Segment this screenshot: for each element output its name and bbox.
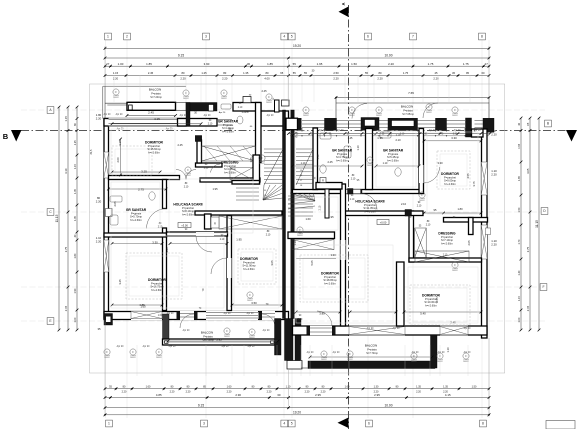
stamp top balcony bbox=[266, 94, 272, 102]
svg-text:2.10: 2.10 bbox=[266, 234, 271, 236]
svg-text:Apr 20: Apr 20 bbox=[183, 329, 190, 332]
balcony bottom-right side wall bbox=[431, 335, 438, 368]
grid bubble 5 bottom bbox=[288, 420, 295, 427]
svg-text:1.95: 1.95 bbox=[317, 62, 323, 66]
wall above dormitor3 bbox=[195, 211, 282, 215]
grid bubble 6 bottom bbox=[366, 420, 373, 427]
dim row 2.75 gr sanitar bbox=[107, 188, 167, 191]
balcony bottom-left parapet bbox=[163, 339, 276, 345]
svg-text:3.75: 3.75 bbox=[526, 246, 530, 252]
svg-text:2.10: 2.10 bbox=[426, 224, 431, 226]
svg-text:Apr 20: Apr 20 bbox=[117, 345, 124, 348]
window bottom right 1 bbox=[349, 327, 405, 335]
grid bubble 4 bottom bbox=[281, 420, 288, 427]
svg-text:3.30: 3.30 bbox=[152, 241, 158, 245]
window right wall lower bbox=[481, 225, 487, 259]
door dormitor 2 bbox=[211, 258, 227, 274]
svg-text:11.15: 11.15 bbox=[535, 220, 539, 228]
svg-text:Apr 20: Apr 20 bbox=[167, 312, 174, 315]
stamp bottom right unit bbox=[347, 351, 353, 359]
svg-text:8: 8 bbox=[481, 35, 483, 39]
svg-text:Apr 20: Apr 20 bbox=[224, 312, 231, 315]
svg-text:4: 4 bbox=[283, 35, 285, 39]
svg-text:5: 5 bbox=[291, 422, 293, 426]
svg-text:9.15: 9.15 bbox=[178, 54, 184, 58]
section arrow A top bbox=[339, 7, 349, 18]
svg-text:1.35: 1.35 bbox=[243, 71, 249, 75]
stamp top balcony bbox=[113, 89, 119, 97]
room label dormitor 3 left bbox=[240, 257, 259, 271]
svg-text:4.10: 4.10 bbox=[64, 168, 68, 174]
svg-text:h=+2.60m: h=+2.60m bbox=[151, 288, 163, 292]
svg-text:2.20: 2.20 bbox=[491, 132, 497, 136]
svg-text:HOL/CASA SCARII: HOL/CASA SCARII bbox=[355, 200, 384, 204]
svg-text:1.75: 1.75 bbox=[428, 62, 434, 66]
svg-text:2.20: 2.20 bbox=[305, 391, 310, 394]
dressing right left wall bbox=[409, 211, 414, 262]
svg-text:1.10: 1.10 bbox=[356, 145, 360, 151]
svg-text:1.20%: 1.20% bbox=[241, 111, 249, 114]
right wall window opening 2 bbox=[481, 225, 487, 259]
svg-text:2.10: 2.10 bbox=[184, 186, 189, 188]
stair walk diagonal right upper bbox=[296, 149, 313, 185]
svg-text:95: 95 bbox=[466, 71, 469, 75]
svg-text:1.15: 1.15 bbox=[518, 295, 521, 300]
svg-text:2.20: 2.20 bbox=[491, 242, 497, 246]
svg-text:4.15: 4.15 bbox=[445, 393, 451, 397]
svg-text:30: 30 bbox=[277, 393, 281, 397]
svg-text:5.40: 5.40 bbox=[420, 312, 426, 316]
dimension riser lines bbox=[105, 46, 489, 414]
svg-text:Apr 20: Apr 20 bbox=[267, 114, 274, 117]
svg-text:3.80: 3.80 bbox=[319, 312, 325, 316]
svg-text:3.35: 3.35 bbox=[118, 140, 122, 146]
svg-text:8: 8 bbox=[482, 422, 484, 426]
stamp bottom right unit bbox=[321, 351, 327, 359]
window left wall upper bbox=[104, 152, 109, 178]
svg-text:9.15: 9.15 bbox=[198, 403, 204, 407]
stair numbers bbox=[300, 170, 303, 187]
stamp bottom left wall bbox=[156, 349, 162, 357]
svg-text:2.10: 2.10 bbox=[220, 239, 225, 241]
svg-text:GR SANITAR: GR SANITAR bbox=[383, 149, 404, 153]
stamp interior bbox=[452, 262, 458, 270]
grid bubble C left bbox=[47, 209, 54, 216]
wall below dressing left bbox=[200, 178, 260, 182]
svg-text:2.10: 2.10 bbox=[396, 135, 401, 137]
party junction wall right unit bbox=[286, 118, 298, 130]
svg-text:80: 80 bbox=[182, 71, 185, 75]
svg-text:1.95: 1.95 bbox=[328, 215, 334, 219]
svg-text:HOL/CASA SCARII: HOL/CASA SCARII bbox=[173, 203, 202, 207]
room label dormitor 1 left bbox=[145, 141, 164, 155]
door gr sanitar 2 bbox=[147, 209, 167, 229]
svg-text:P=piatra: P=piatra bbox=[203, 335, 213, 338]
balcony inner dim row bbox=[126, 114, 177, 117]
svg-text:27: 27 bbox=[485, 62, 489, 66]
stamp bottom right unit bbox=[463, 353, 469, 361]
wall below dormitor top-right bbox=[444, 218, 488, 223]
wall below dormitor 1 bbox=[109, 176, 180, 180]
wall dormitor1 / dressing bbox=[196, 163, 223, 167]
svg-text:F: F bbox=[542, 285, 544, 289]
svg-text:2.20: 2.20 bbox=[377, 76, 383, 80]
svg-text:4.35: 4.35 bbox=[154, 117, 160, 121]
svg-text:2.45: 2.45 bbox=[148, 111, 154, 115]
svg-text:2.10: 2.10 bbox=[298, 319, 303, 321]
top wall left segment bbox=[104, 119, 186, 127]
room label gr sanitar 1 right bbox=[332, 149, 353, 163]
svg-text:45: 45 bbox=[452, 71, 455, 75]
svg-text:DORMITOR: DORMITOR bbox=[441, 172, 460, 176]
grid bubble 4 bbox=[281, 33, 288, 40]
wall dormitor2 / dormitor3 bbox=[227, 216, 232, 311]
svg-text:6: 6 bbox=[367, 35, 369, 39]
bottom 9.15 / 10.00 chain bbox=[104, 403, 491, 409]
svg-text:1.60: 1.60 bbox=[345, 385, 350, 388]
svg-text:2.20: 2.20 bbox=[96, 239, 102, 243]
svg-text:DORMITOR: DORMITOR bbox=[148, 278, 167, 282]
wall right of gr sanitar upper bbox=[256, 103, 262, 163]
svg-text:1.60: 1.60 bbox=[305, 217, 311, 221]
svg-text:2.15: 2.15 bbox=[64, 305, 68, 311]
svg-text:5.95: 5.95 bbox=[216, 338, 222, 342]
svg-text:Apr 20: Apr 20 bbox=[104, 113, 111, 116]
hall wall right unit bbox=[345, 211, 423, 216]
grid bubble F right bbox=[540, 284, 547, 291]
bottom wall window opening 1 bbox=[131, 311, 162, 320]
svg-text:S=7.20mp: S=7.20mp bbox=[150, 96, 162, 99]
stamp interior bbox=[297, 227, 303, 235]
svg-text:+0.00: +0.00 bbox=[380, 220, 387, 224]
stamp balcony bottom-left bbox=[224, 328, 230, 336]
svg-text:80: 80 bbox=[266, 71, 269, 75]
svg-text:1.80: 1.80 bbox=[457, 207, 463, 211]
svg-text:19.20: 19.20 bbox=[293, 44, 301, 48]
svg-text:30: 30 bbox=[247, 62, 251, 66]
room label hol left bbox=[173, 203, 202, 217]
svg-text:3.50: 3.50 bbox=[251, 301, 257, 305]
svg-text:P=piatra: P=piatra bbox=[151, 92, 161, 95]
svg-text:2.20: 2.20 bbox=[122, 391, 127, 394]
right top wall pier 5 bbox=[436, 118, 447, 130]
svg-text:55: 55 bbox=[293, 71, 296, 75]
svg-text:2.20: 2.20 bbox=[96, 199, 102, 203]
closet dressing right bottom bbox=[415, 251, 469, 262]
wall below bathrooms right unit bbox=[293, 190, 424, 194]
stamp interior bbox=[221, 90, 227, 98]
svg-text:1.30: 1.30 bbox=[374, 385, 379, 388]
party wall extension leaf 2 bbox=[295, 319, 301, 369]
staircase right unit upper flight bbox=[296, 149, 313, 183]
room label gr sanitar lower left bbox=[126, 208, 147, 222]
room label dormitor top right bbox=[441, 172, 460, 186]
svg-text:3.30: 3.30 bbox=[293, 240, 297, 246]
svg-text:2.45: 2.45 bbox=[261, 89, 267, 93]
svg-text:h=+2.60m: h=+2.60m bbox=[182, 212, 194, 216]
grid bubble 2 bbox=[124, 33, 131, 40]
bottom wall door opening 2 bbox=[262, 311, 275, 320]
svg-text:S=7.65mp: S=7.65mp bbox=[402, 113, 414, 116]
party wall left leaf bbox=[283, 110, 286, 319]
svg-text:1.35: 1.35 bbox=[443, 385, 448, 388]
window jamb lines right unit bbox=[302, 128, 475, 132]
svg-text:2.20: 2.20 bbox=[96, 116, 102, 120]
section axis B (horizontal dash-dot) bbox=[21, 130, 567, 132]
wall between gr sanitar 1-2 right bbox=[366, 129, 373, 190]
svg-text:h=+2.60m: h=+2.60m bbox=[148, 150, 160, 154]
svg-text:h=+2.60m: h=+2.60m bbox=[387, 158, 399, 162]
bathroom fixtures bbox=[110, 104, 401, 225]
balcony door swing right 1 bbox=[352, 104, 367, 119]
svg-text:1.35: 1.35 bbox=[74, 215, 77, 220]
hol wall upper segment bbox=[163, 180, 167, 209]
party wall extension leaf 1 bbox=[285, 319, 294, 361]
svg-text:h=+2.60m: h=+2.60m bbox=[441, 241, 453, 245]
svg-text:2.45: 2.45 bbox=[327, 160, 333, 164]
svg-text:Apr 20: Apr 20 bbox=[319, 129, 326, 132]
stair walk diagonal left upper bbox=[264, 149, 283, 185]
furniture beds (light) bbox=[112, 146, 152, 176]
level marker box right bbox=[377, 220, 389, 225]
party wall right leaf bbox=[291, 110, 294, 319]
grid bubble 3 bbox=[203, 33, 210, 40]
svg-text:GR SANITAR: GR SANITAR bbox=[218, 120, 239, 124]
svg-text:80: 80 bbox=[379, 71, 382, 75]
overall dimension 19.20 bottom bbox=[104, 411, 491, 417]
svg-text:1.60: 1.60 bbox=[158, 315, 163, 317]
svg-text:2.20: 2.20 bbox=[416, 391, 421, 394]
staircase left winder fan bbox=[263, 185, 283, 200]
wall left of dressing-left upper bbox=[197, 140, 202, 163]
svg-text:2.10: 2.10 bbox=[401, 202, 407, 206]
door dressing left bbox=[211, 164, 221, 173]
right top wall pier 1 bbox=[298, 118, 302, 130]
overall dimension 19.20 top bbox=[104, 44, 491, 50]
svg-text:Apr 20: Apr 20 bbox=[337, 129, 344, 132]
door gap bbox=[419, 165, 424, 183]
svg-text:Apr 20: Apr 20 bbox=[116, 113, 123, 116]
svg-text:19.20: 19.20 bbox=[293, 411, 301, 415]
eaves outline bbox=[90, 84, 505, 373]
wall dormitor bm / br bbox=[397, 262, 405, 326]
svg-text:1.95: 1.95 bbox=[212, 187, 218, 191]
svg-text:2.20: 2.20 bbox=[388, 62, 394, 66]
svg-text:1.50: 1.50 bbox=[472, 385, 477, 388]
svg-text:1.45: 1.45 bbox=[348, 137, 353, 140]
right wall window opening 1 bbox=[481, 162, 487, 195]
grid bubble D right bbox=[541, 208, 548, 215]
svg-text:2.95: 2.95 bbox=[315, 393, 321, 397]
door dormitor 3 bbox=[196, 236, 212, 252]
svg-text:1.70: 1.70 bbox=[518, 239, 521, 244]
svg-text:2.45: 2.45 bbox=[450, 321, 456, 325]
section arrow B right bbox=[566, 130, 577, 142]
svg-text:h=+2.60m: h=+2.60m bbox=[130, 218, 142, 222]
svg-text:DRESSING: DRESSING bbox=[221, 161, 239, 165]
window left wall lower bbox=[104, 240, 109, 272]
staircase left lower run treads bbox=[236, 188, 259, 200]
grid bubble 1 bbox=[105, 33, 112, 40]
tiny apr 20 annotations bbox=[104, 113, 481, 354]
svg-text:3: 3 bbox=[203, 422, 205, 426]
right overall 11.15 bbox=[535, 117, 541, 332]
corner fill wall bbox=[472, 129, 484, 137]
svg-text:2: 2 bbox=[126, 35, 128, 39]
grid bubble 5 bbox=[288, 33, 295, 40]
exterior wall left bbox=[104, 119, 109, 319]
bottom right window opening 2 bbox=[440, 326, 468, 336]
wall above dormitor bottom-mid bbox=[288, 232, 335, 239]
svg-text:2.90: 2.90 bbox=[235, 393, 241, 397]
door gap hall bbox=[345, 190, 361, 194]
stair lower run treads right bbox=[288, 196, 313, 216]
svg-text:Apr 20: Apr 20 bbox=[263, 329, 270, 332]
svg-text:2.10: 2.10 bbox=[400, 134, 405, 136]
svg-text:1.00: 1.00 bbox=[74, 317, 77, 322]
stamp top balcony bbox=[303, 107, 309, 115]
svg-text:2.20: 2.20 bbox=[180, 76, 186, 80]
svg-text:B: B bbox=[3, 132, 9, 141]
svg-text:11.15: 11.15 bbox=[55, 214, 59, 222]
right top wall pier 3 bbox=[361, 118, 379, 131]
balcony top-right outline bbox=[336, 97, 489, 99]
svg-text:1.55: 1.55 bbox=[518, 143, 521, 148]
balcony side wall right unit bbox=[466, 118, 472, 137]
svg-text:2.75: 2.75 bbox=[138, 188, 144, 192]
closet diagonal fill bbox=[204, 146, 217, 161]
interior dimensions bbox=[113, 70, 476, 353]
staircase right unit winder fan bbox=[288, 193, 315, 209]
svg-text:2.20: 2.20 bbox=[267, 391, 272, 394]
closet band right unit bbox=[292, 240, 334, 250]
stamp interior bbox=[259, 155, 265, 163]
svg-text:BALCON: BALCON bbox=[365, 344, 377, 348]
top medium chain bbox=[104, 62, 491, 68]
svg-text:Apr 20: Apr 20 bbox=[464, 351, 471, 354]
svg-text:Apr 20: Apr 20 bbox=[307, 351, 314, 354]
svg-text:h=+2.60m: h=+2.60m bbox=[224, 170, 236, 174]
svg-text:1.50: 1.50 bbox=[351, 62, 357, 66]
svg-text:h=+2.60m: h=+2.60m bbox=[444, 182, 456, 186]
svg-text:65: 65 bbox=[280, 71, 283, 75]
dim 4.35 line bbox=[112, 123, 201, 125]
room label gr sanitar 2 right bbox=[383, 149, 404, 163]
svg-text:Apr 20: Apr 20 bbox=[393, 327, 400, 330]
door hall right bbox=[361, 194, 377, 210]
svg-text:1.10: 1.10 bbox=[383, 162, 388, 165]
door swing into balcony 2 bbox=[262, 314, 275, 327]
door hol to dormitor1 leaf 1 bbox=[186, 170, 196, 180]
svg-text:65: 65 bbox=[526, 122, 530, 126]
svg-text:55: 55 bbox=[293, 62, 297, 66]
svg-text:2.45: 2.45 bbox=[177, 143, 183, 147]
stair L wall left vertical bbox=[253, 155, 260, 184]
closet dressing left bbox=[202, 146, 256, 161]
stamp top balcony bbox=[452, 107, 458, 115]
svg-text:4: 4 bbox=[283, 422, 285, 426]
svg-text:1.10: 1.10 bbox=[317, 154, 320, 159]
stub wall dressing right bbox=[469, 218, 474, 235]
svg-text:1.25: 1.25 bbox=[201, 71, 207, 75]
svg-text:1.35: 1.35 bbox=[74, 188, 77, 193]
bottom-left corner block bbox=[104, 314, 113, 326]
svg-text:A: A bbox=[341, 2, 346, 5]
svg-text:R: R bbox=[214, 222, 216, 226]
svg-text:DORMITOR: DORMITOR bbox=[240, 257, 259, 261]
svg-text:GR SANITAR: GR SANITAR bbox=[126, 208, 147, 212]
grid bubble 1 bottom bbox=[106, 420, 113, 427]
svg-text:1.60: 1.60 bbox=[74, 253, 77, 258]
stamp interior bbox=[419, 192, 425, 200]
svg-text:+3.00: +3.00 bbox=[181, 223, 188, 227]
dim 7.65 line ticks bbox=[335, 96, 338, 99]
svg-text:2.10: 2.10 bbox=[208, 123, 213, 125]
room label dormitor bottom mid bbox=[321, 272, 340, 286]
balcony parapet hatched top-left bbox=[127, 102, 176, 110]
svg-text:1.95: 1.95 bbox=[236, 238, 242, 242]
extra door/window size labels bbox=[158, 103, 456, 321]
left wall window opening 1 bbox=[104, 152, 109, 178]
svg-text:2.55: 2.55 bbox=[435, 297, 439, 303]
grid bubble 7 bbox=[410, 33, 417, 40]
svg-text:3.05: 3.05 bbox=[270, 260, 274, 266]
closet band dormitor3 bbox=[219, 216, 282, 229]
balcony door opening top wall bbox=[217, 119, 232, 121]
top 9.15 / 10.00 chain bbox=[104, 54, 491, 60]
leader lines top bbox=[114, 75, 489, 376]
construction grid horizontals bbox=[21, 109, 545, 111]
svg-text:2.10: 2.10 bbox=[417, 205, 422, 207]
left chain 2 bbox=[64, 106, 70, 332]
bottom right door opening bbox=[310, 326, 332, 336]
svg-text:Apr 20: Apr 20 bbox=[247, 312, 254, 315]
section axis A (vertical dash-dot) bbox=[348, 5, 350, 429]
grid bubble 6 bbox=[365, 33, 372, 40]
section arrow B left bbox=[11, 130, 22, 142]
pier left of party wall bbox=[275, 100, 280, 112]
grid bubble A left bbox=[47, 107, 54, 114]
interior dim line dormitor tr bbox=[111, 138, 483, 359]
bottom right window opening 1 bbox=[349, 326, 405, 336]
door gap bbox=[196, 232, 214, 236]
svg-text:2.20: 2.20 bbox=[227, 391, 232, 394]
balcony door swing bottom right bbox=[317, 311, 332, 326]
svg-text:Apr 20: Apr 20 bbox=[180, 114, 187, 117]
door hol to dormitor1 leaf 2 bbox=[176, 170, 186, 180]
stamp bottom left wall bbox=[130, 349, 136, 357]
svg-text:Apr 20: Apr 20 bbox=[333, 351, 340, 354]
bottom wall door opening 1 (dormitor 2 to balcony) bbox=[180, 311, 194, 320]
svg-text:2.50: 2.50 bbox=[333, 71, 339, 75]
svg-text:1: 1 bbox=[107, 35, 109, 39]
svg-text:4.55: 4.55 bbox=[466, 173, 470, 179]
right unit top dim row bbox=[287, 132, 491, 135]
exterior wall right bbox=[482, 129, 488, 338]
svg-text:60: 60 bbox=[482, 71, 485, 75]
construction grid verticals bbox=[105, 40, 107, 418]
right top wall corner pier bbox=[483, 118, 494, 132]
top wall right segment to party wall bbox=[261, 111, 289, 126]
svg-text:h=+2.60m: h=+2.60m bbox=[243, 267, 255, 271]
svg-text:BALCON: BALCON bbox=[401, 105, 413, 109]
pier bathroom wall left bbox=[348, 189, 354, 195]
svg-text:55: 55 bbox=[365, 71, 368, 75]
svg-text:2.20: 2.20 bbox=[491, 172, 497, 176]
stamp interior bbox=[185, 167, 191, 175]
svg-text:Apr 20: Apr 20 bbox=[248, 345, 255, 348]
svg-text:R: R bbox=[322, 179, 324, 183]
